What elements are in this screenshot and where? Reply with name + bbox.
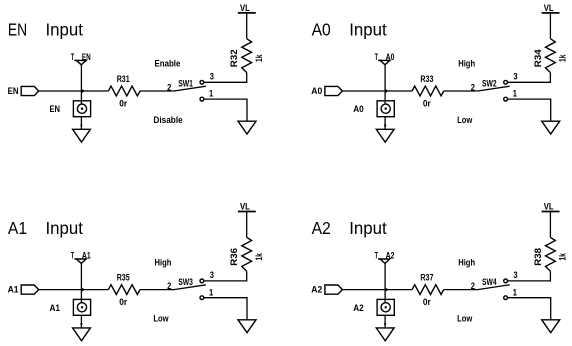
svg-text:0r: 0r [423,99,431,110]
svg-text:SW2: SW2 [482,78,497,89]
svg-text:Disable: Disable [153,115,182,126]
value 1k [558,54,569,62]
value 0r [119,297,127,308]
junction node A0 [385,90,388,93]
pin number 1 [209,287,214,298]
port label EN [8,86,19,97]
value 0r [423,99,431,110]
svg-text:3: 3 [513,72,517,83]
net label VL [544,202,554,213]
wire testpoint stem [80,263,82,302]
testpoint EN (circle in box) [73,101,90,117]
ground (pin 1) [238,121,256,134]
svg-text:VL: VL [240,202,250,213]
svg-text:T: T [375,250,378,261]
switch label SW2 [482,78,497,89]
switch SW3 pin 1 contact [200,296,204,300]
svg-text:EN: EN [8,86,19,97]
wire testpoint stem [384,263,386,302]
net label VL [240,202,250,213]
value 1k [254,253,265,261]
testpoint net marker T_EN [76,60,86,64]
svg-text:R31: R31 [117,74,130,85]
wire pin 3 to R32 [204,73,247,83]
svg-text:1k: 1k [254,253,265,261]
wire testpoint stem [80,65,82,104]
label High [458,257,475,268]
svg-text:2: 2 [167,82,171,93]
resistor R32 [242,39,252,73]
svg-text:1: 1 [513,89,518,100]
label Low [457,115,473,126]
svg-text:T: T [71,250,74,261]
value 0r [119,99,127,110]
port connector A2 [325,285,343,294]
svg-text:Low: Low [457,314,473,325]
svg-text:0r: 0r [119,99,127,110]
wire R33 to SW2 pin 2 [444,90,478,92]
svg-text:R34: R34 [533,49,544,67]
switch SW2 pin 3 contact [504,80,508,84]
wire A1 port to R35 [39,289,109,291]
switch SW4 pin 3 contact [504,279,508,283]
wire R32 to VL [246,13,248,39]
svg-text:0r: 0r [119,297,127,308]
svg-text:A1: A1 [8,285,20,296]
wire testpoint to ground [384,315,386,328]
testpoint A2 (circle in box) [377,299,394,315]
ref label R35 [117,273,130,284]
ground (pin 1) [542,121,560,134]
svg-text:R36: R36 [229,248,240,266]
wire R37 to SW4 pin 2 [444,289,478,291]
svg-text:0r: 0r [423,297,431,308]
svg-text:SW3: SW3 [178,277,193,288]
resistor R33 [412,86,444,96]
pin number 1 [209,89,214,100]
ground (testpoint) [73,129,91,142]
wire pin 3 to R34 [508,73,551,83]
switch label SW4 [482,277,497,288]
svg-text:High: High [458,257,475,268]
port label A2 [311,285,322,296]
resistor R37 [412,285,444,295]
wire R34 to VL [549,13,551,39]
pin number 2 [167,281,171,292]
label Low [457,314,473,325]
svg-text:3: 3 [513,270,517,281]
value 0r [423,297,431,308]
net label T_EN [71,52,91,63]
svg-text:Input: Input [349,219,387,238]
switch SW4 lever [478,285,510,290]
label Disable [153,115,182,126]
wire testpoint to ground [384,117,386,130]
value 1k [254,54,265,62]
switch label SW3 [178,277,193,288]
svg-text:Low: Low [457,115,473,126]
svg-text:VL: VL [544,3,554,14]
label Enable [155,59,181,70]
resistor R34 [546,39,556,73]
resistor R36 [242,237,252,271]
svg-text:1: 1 [209,89,214,100]
value 1k [558,253,569,261]
resistor R31 [108,86,140,96]
svg-text:2: 2 [167,281,171,292]
wire pin 1 to ground [508,298,551,320]
wire R36 to VL [246,212,248,238]
ref label R36 [229,248,240,266]
switch SW2 pin 1 contact [504,97,508,101]
svg-text:3: 3 [210,270,214,281]
pin number 3 [210,72,214,83]
switch SW1 lever [174,86,206,91]
switch SW1 pin 1 contact [200,97,204,101]
wire A0 port to R33 [342,90,412,92]
ref label R31 [117,74,130,85]
switch SW1 pin 3 contact [200,80,204,84]
svg-text:1: 1 [513,287,518,298]
svg-text:SW1: SW1 [178,78,193,89]
svg-text:A2: A2 [311,285,322,296]
ref label R33 [420,74,433,85]
ref label R37 [420,273,433,284]
pin number 2 [471,82,475,93]
wire pin 3 to R36 [204,271,247,281]
svg-text:R32: R32 [229,49,240,67]
pin number 2 [471,281,475,292]
svg-text:A2: A2 [312,219,331,238]
wire pin 3 to R38 [508,271,551,281]
svg-text:Enable: Enable [155,59,181,70]
svg-text:A2: A2 [353,303,364,314]
port connector A1 [21,285,39,294]
svg-text:Input: Input [349,21,387,40]
testpoint A1 (circle in box) [73,299,90,315]
port label A1 [8,285,20,296]
pin number 3 [210,270,214,281]
svg-text:A1: A1 [82,250,91,261]
net label T_A1 [71,250,91,261]
pin number 2 [167,82,171,93]
junction node A2 [385,288,388,291]
switch SW2 lever [478,86,510,91]
testpoint net marker T_A0 [380,60,390,64]
power rail VL [238,12,256,14]
power rail VL [542,12,560,14]
svg-text:A1: A1 [50,303,61,314]
svg-text:EN: EN [50,104,61,115]
ground (pin 1) [542,320,560,333]
svg-text:R38: R38 [533,247,544,265]
wire testpoint to ground [80,315,82,328]
svg-text:R35: R35 [117,273,130,284]
wire A2 port to R37 [342,289,412,291]
label High [458,59,475,70]
ground (testpoint) [73,328,91,341]
title A0 Input [312,21,387,40]
svg-text:1k: 1k [558,54,569,62]
svg-text:A1: A1 [8,219,27,238]
svg-text:2: 2 [471,82,475,93]
junction node EN [81,90,84,93]
ground (testpoint) [376,129,394,142]
testpoint net marker T_A2 [380,259,390,263]
power rail VL [238,211,256,213]
net label T_A0 [375,52,395,63]
wire testpoint stem [384,65,386,104]
port connector A0 [325,86,343,95]
ref label R32 [229,49,240,67]
port label A0 [311,86,322,97]
label Low [153,314,169,325]
svg-text:R33: R33 [420,74,433,85]
svg-text:SW4: SW4 [482,277,497,288]
resistor R35 [108,285,140,295]
svg-text:High: High [155,257,172,268]
title A1 Input [8,219,83,238]
svg-text:A0: A0 [311,86,322,97]
junction node A1 [81,288,84,291]
resistor R38 [546,237,556,271]
ground (pin 1) [238,320,256,333]
svg-text:A0: A0 [312,21,331,40]
svg-text:3: 3 [210,72,214,83]
pin number 1 [513,287,518,298]
svg-text:EN: EN [82,52,91,63]
wire EN port to R31 [39,90,109,92]
wire pin 1 to ground [204,99,247,121]
wire R35 to SW3 pin 2 [140,289,174,291]
svg-text:Input: Input [46,219,84,238]
svg-text:1k: 1k [254,54,265,62]
svg-text:1: 1 [209,287,214,298]
switch label SW1 [178,78,193,89]
wire testpoint to ground [80,117,82,130]
title EN Input [8,21,83,40]
pin number 1 [513,89,518,100]
ref label R38 [533,247,544,265]
wire R31 to SW1 pin 2 [140,90,174,92]
power rail VL [542,211,560,213]
net label VL [240,3,250,14]
svg-text:VL: VL [544,202,554,213]
svg-text:Input: Input [46,21,84,40]
pin number 3 [513,72,517,83]
testpoint label A2 [353,303,364,314]
net label T_A2 [375,250,395,261]
ground (testpoint) [376,328,394,341]
svg-text:EN: EN [8,21,27,40]
ref label R34 [533,49,544,67]
svg-text:1k: 1k [558,253,569,261]
switch SW4 pin 1 contact [504,296,508,300]
switch SW3 lever [174,285,206,290]
svg-text:A0: A0 [353,104,364,115]
pin number 3 [513,270,517,281]
wire pin 1 to ground [508,99,551,121]
testpoint net marker T_A1 [76,259,86,263]
net label VL [544,3,554,14]
wire R38 to VL [549,212,551,238]
svg-text:R37: R37 [420,273,433,284]
testpoint label A0 [353,104,364,115]
wire pin 1 to ground [204,298,247,320]
svg-text:2: 2 [471,281,475,292]
svg-text:T: T [375,52,378,63]
svg-text:Low: Low [153,314,169,325]
testpoint label A1 [50,303,61,314]
title A2 Input [312,219,387,238]
testpoint label EN [50,104,61,115]
testpoint A0 (circle in box) [377,101,394,117]
port connector EN [21,86,39,95]
svg-text:High: High [458,59,475,70]
switch SW3 pin 3 contact [200,279,204,283]
svg-text:VL: VL [240,3,250,14]
label High [155,257,172,268]
svg-text:T: T [71,52,74,63]
